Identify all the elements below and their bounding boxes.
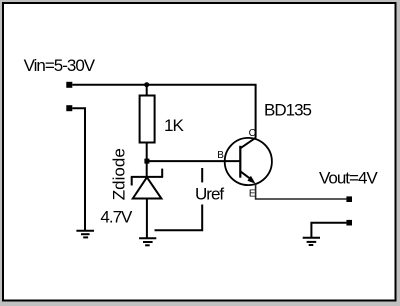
wire: resistor top lead: [146, 85, 148, 96]
Uref annotation: lower tick and bracket to ground: [155, 205, 203, 231]
collector diagonal: [240, 138, 256, 149]
zener triangle (anode): [133, 177, 162, 198]
wire: top rail from T1 to collector corner, then down: [72, 85, 255, 138]
svg-text:Vout=4V: Vout=4V: [319, 169, 378, 188]
svg-text:4.7V: 4.7V: [100, 208, 133, 227]
wire: T2 to ground drop: [72, 108, 85, 231]
transistor Q1 (BD135): [225, 138, 272, 185]
wire: base wire to transistor: [147, 160, 241, 162]
wire: resistor bottom lead down to zener: [146, 143, 148, 178]
svg-text:1K: 1K: [164, 116, 184, 135]
node junction square (base node): [144, 159, 149, 164]
terminal square T2 (Vin -): [66, 105, 72, 111]
svg-text:BD135: BD135: [264, 100, 312, 119]
svg-text:Zdiode: Zdiode: [110, 148, 129, 200]
svg-text:Vin=5-30V: Vin=5-30V: [24, 56, 96, 75]
Uref annotation: upper tick: [201, 168, 203, 182]
wire: emitter down and out to Vout terminal: [256, 184, 347, 200]
ground (right): [303, 238, 320, 245]
base bar: [239, 146, 241, 178]
terminal square T4 (Vout -): [346, 220, 352, 226]
svg-text:B: B: [217, 150, 224, 161]
emitter diagonal with arrow: [240, 171, 253, 180]
terminal square T3 (Vout +): [346, 196, 352, 202]
wire: zener anode to ground: [146, 199, 148, 240]
svg-text:Uref: Uref: [195, 184, 224, 203]
ground (left): [76, 231, 94, 238]
svg-text:C: C: [249, 128, 256, 139]
zener diode D1: cathode bar with wings: [131, 169, 163, 199]
terminal square T1 (Vin +): [66, 82, 72, 88]
resistor R1 body: [140, 96, 155, 143]
ground (zener): [139, 238, 156, 245]
wire: T4 to right ground: [311, 223, 346, 238]
node junction dot on top rail: [144, 82, 149, 87]
